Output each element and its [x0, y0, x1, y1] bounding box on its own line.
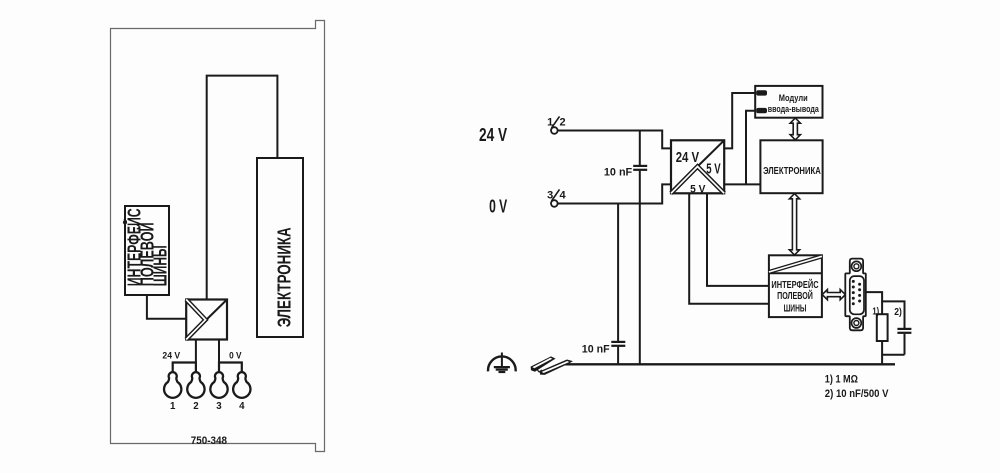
- contact 4: [233, 372, 250, 398]
- dc-dc converter U1: [186, 300, 227, 340]
- svg-text:Модули: Модули: [779, 93, 808, 103]
- wire converter top to electronics: [207, 76, 278, 300]
- wire 24V line: [558, 131, 671, 149]
- DIN rail icon: [531, 356, 573, 375]
- svg-text:1) 1 MΩ: 1) 1 MΩ: [825, 373, 859, 385]
- wire branch to io-modules pin2: [746, 111, 755, 185]
- bus bar contacts 1-2: [173, 363, 196, 373]
- module housing outline: [111, 21, 325, 452]
- svg-text:5 V: 5 V: [690, 183, 706, 195]
- svg-text:2: 2: [559, 117, 565, 129]
- bus bar contacts 3-4: [219, 363, 242, 373]
- svg-text:5 V: 5 V: [706, 161, 720, 178]
- capacitor C2 10nF (0V to earth): [611, 204, 625, 365]
- wire resistor and capacitor to earth: [882, 341, 904, 364]
- svg-text:ИНТЕРФЕЙС: ИНТЕРФЕЙС: [771, 278, 819, 291]
- dc-dc converter U4 24V/5V: [671, 140, 724, 195]
- fieldbus interface box U2: [123, 206, 170, 295]
- svg-text:2) 10 nF/500 V: 2) 10 nF/500 V: [825, 388, 889, 400]
- svg-text:3: 3: [216, 401, 222, 412]
- svg-text:ввода-вывода: ввода-вывода: [768, 104, 820, 114]
- contact 2: [187, 372, 204, 398]
- D-SUB connector X1: [845, 259, 866, 331]
- svg-text:4: 4: [239, 401, 245, 412]
- electronics box U3: [257, 158, 303, 337]
- terminal 1/2: [547, 116, 565, 133]
- svg-text:4: 4: [559, 190, 566, 202]
- svg-text:10 nF: 10 nF: [604, 166, 632, 178]
- svg-text:10 nF: 10 nF: [582, 344, 610, 356]
- arrow io-modules / electronics: [790, 118, 800, 140]
- connector dot on interface box: [123, 221, 126, 224]
- svg-text:0 V: 0 V: [489, 197, 507, 217]
- contact numbers 1 2 3 4: [170, 401, 245, 412]
- wire dcdc 5V to electronics: [724, 183, 760, 185]
- svg-text:1: 1: [547, 117, 553, 129]
- io modules box: [755, 86, 822, 118]
- electronics box: [760, 140, 822, 193]
- wire to resistor: [881, 301, 883, 314]
- wire dcdc 5V to fieldbus interface upper: [707, 193, 769, 286]
- wire dcdc to io-modules pin1: [724, 93, 755, 148]
- arrow electronics / fieldbus interface: [789, 194, 799, 255]
- svg-text:750-348: 750-348: [191, 435, 227, 447]
- svg-text:ЭЛЕКТРОНИКА: ЭЛЕКТРОНИКА: [274, 227, 295, 327]
- svg-text:3: 3: [547, 190, 553, 202]
- wire connector to RC network: [866, 292, 905, 328]
- contact 1: [164, 372, 181, 398]
- svg-text:1: 1: [170, 401, 176, 412]
- wire interface box to converter: [147, 295, 186, 319]
- svg-text:1): 1): [872, 306, 879, 317]
- svg-text:24 V: 24 V: [676, 149, 699, 166]
- wire dcdc 5V to fieldbus interface lower: [689, 193, 769, 303]
- capacitor C1 10nF (24V to earth): [633, 131, 647, 365]
- svg-text:24 V: 24 V: [479, 125, 507, 145]
- wire converter to contact 2: [195, 340, 197, 363]
- wire converter to contact 3: [218, 340, 220, 363]
- fieldbus interface box: [769, 255, 822, 317]
- svg-text:ПОЛЕВОЙ: ПОЛЕВОЙ: [777, 289, 813, 302]
- earth symbol: [488, 353, 516, 373]
- capacitor C3 10nF/500V: [897, 329, 911, 355]
- svg-text:2: 2: [193, 401, 198, 412]
- arrow fieldbus interface / connector: [822, 290, 845, 300]
- svg-text:ШИНЫ: ШИНЫ: [151, 245, 171, 286]
- earth line: [564, 363, 895, 365]
- svg-text:ШИНЫ: ШИНЫ: [784, 303, 807, 314]
- resistor R1 1Mohm: [877, 314, 888, 341]
- svg-text:2): 2): [894, 307, 902, 318]
- contact 3: [210, 372, 227, 398]
- svg-text:24 V: 24 V: [162, 351, 180, 362]
- terminal 3/4: [547, 189, 566, 206]
- svg-text:0 V: 0 V: [229, 351, 242, 362]
- wire 0V line: [558, 184, 671, 203]
- svg-text:ЭЛЕКТРОНИКА: ЭЛЕКТРОНИКА: [763, 165, 821, 177]
